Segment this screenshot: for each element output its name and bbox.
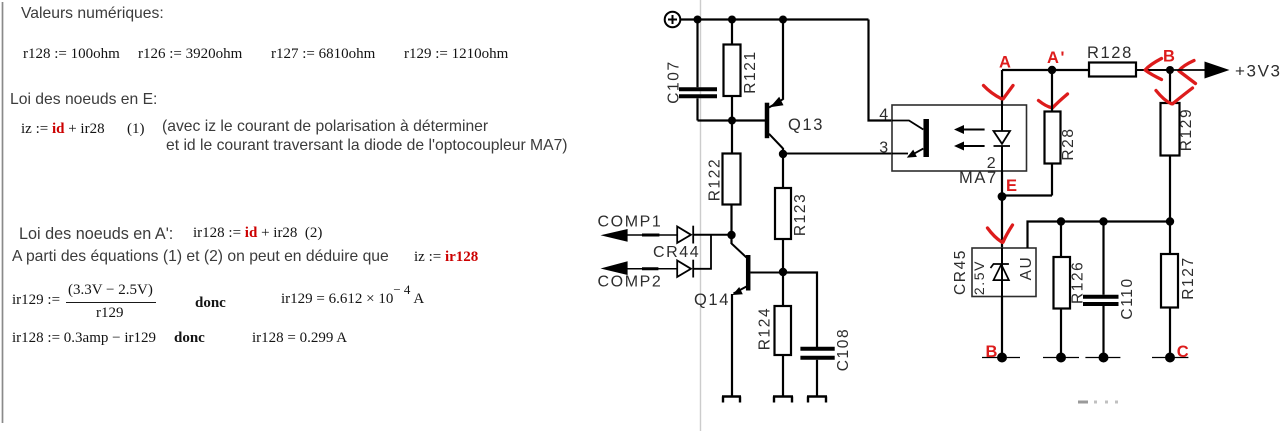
svg-text:R121: R121 xyxy=(742,50,759,93)
svg-text:R28: R28 xyxy=(1060,127,1077,160)
diode CR44a xyxy=(677,226,693,244)
+3V3 terminal xyxy=(1205,62,1230,79)
junction A' xyxy=(1048,66,1056,74)
column separator rule xyxy=(700,0,702,431)
label CR44 xyxy=(653,244,700,261)
input terminal COMP1 xyxy=(601,229,678,242)
label C107 xyxy=(666,60,683,103)
wire R128 to B xyxy=(1136,69,1170,71)
junction Q13 collector node xyxy=(779,150,787,158)
capacitor C107 xyxy=(679,20,717,121)
label R28 xyxy=(1060,127,1077,160)
svg-text:+3V3: +3V3 xyxy=(1235,62,1280,81)
svg-text:Q13: Q13 xyxy=(788,116,824,134)
label Q14 xyxy=(694,291,730,309)
label R128 xyxy=(1087,44,1133,62)
svg-text:3: 3 xyxy=(879,140,890,157)
junction base divider node xyxy=(728,117,736,125)
wire node A drop xyxy=(1001,70,1003,105)
label R123 xyxy=(792,193,809,236)
svg-text:R129: R129 xyxy=(1178,108,1195,151)
label R122 xyxy=(707,158,724,201)
transistor Q14 xyxy=(732,235,784,396)
label CR45 xyxy=(952,249,969,295)
pin 3 label xyxy=(879,140,890,157)
svg-text:C108: C108 xyxy=(835,328,852,371)
capacitor C108 xyxy=(800,349,834,396)
node label B xyxy=(1163,48,1177,66)
wire R28 to E xyxy=(1002,194,1052,196)
transistor Q13 xyxy=(767,20,784,155)
resistor R124 xyxy=(775,272,792,396)
svg-text:MA7: MA7 xyxy=(959,169,998,187)
resistor R122 xyxy=(723,121,741,236)
label R129 xyxy=(1178,108,1195,151)
wire Q14 base node to C108 xyxy=(783,273,817,348)
optocoupler MA7 box xyxy=(892,105,1027,171)
junction E xyxy=(998,192,1007,201)
shunt regulator CR45 box xyxy=(972,248,1036,297)
resistor R126 xyxy=(1054,222,1071,358)
wire B to +3V3 xyxy=(1170,69,1205,71)
ground Q14 emitter xyxy=(722,397,741,403)
junction R126 bottom xyxy=(1043,353,1079,363)
red current arrow at A' xyxy=(1039,94,1068,108)
red current arrow at R129 top xyxy=(1156,88,1193,104)
junction rail/Q13 emitter xyxy=(779,16,787,24)
resistor R129 xyxy=(1161,70,1180,222)
wire A to A' xyxy=(1002,69,1052,71)
erased note marks xyxy=(1078,401,1118,404)
node label A xyxy=(999,54,1013,72)
zener diode inside CR45 xyxy=(991,248,1009,297)
junction rail/C107 xyxy=(694,16,702,24)
junction rail/R121 xyxy=(728,16,736,24)
ground R124 xyxy=(773,397,793,403)
label +3V3 xyxy=(1235,62,1280,81)
node label A' xyxy=(1047,49,1066,67)
svg-text:R127: R127 xyxy=(1180,256,1197,299)
label R127 xyxy=(1180,256,1197,299)
resistor R123 xyxy=(775,154,791,272)
resistor R127 xyxy=(1161,222,1178,358)
red current arrow above CR45 xyxy=(988,225,1013,242)
svg-text:B: B xyxy=(1163,48,1177,66)
resistor R121 xyxy=(724,20,741,121)
label AU xyxy=(1018,256,1035,281)
svg-text:R123: R123 xyxy=(792,193,809,236)
page margin rule xyxy=(2,2,4,423)
power terminal xyxy=(665,12,681,28)
input terminal COMP2 xyxy=(601,261,678,275)
resistor R128 xyxy=(1089,63,1136,77)
label Q13 xyxy=(788,116,824,134)
wire CR44b riser xyxy=(693,235,711,269)
diode CR44b xyxy=(677,260,693,278)
svg-text:R122: R122 xyxy=(707,158,724,201)
svg-text:A: A xyxy=(999,54,1013,72)
label R121 xyxy=(742,50,759,93)
opto LED diode xyxy=(994,105,1011,171)
junction B xyxy=(1166,66,1174,74)
svg-text:COMP2: COMP2 xyxy=(598,273,663,290)
junction R126 top xyxy=(1057,217,1065,225)
wire CR44a to junction xyxy=(693,234,731,236)
label C108 xyxy=(835,328,852,371)
wire E to CR45 xyxy=(1001,171,1003,248)
junction C110 bottom xyxy=(1085,353,1120,363)
ground C108 xyxy=(807,397,827,403)
junction C110 top xyxy=(1099,217,1107,225)
svg-text:Q14: Q14 xyxy=(694,291,730,309)
svg-text:CR45: CR45 xyxy=(952,249,969,295)
resistor R28 xyxy=(1045,70,1061,196)
node label E xyxy=(1006,177,1019,195)
node label B bottom xyxy=(986,343,1000,361)
node label C bottom xyxy=(1177,343,1191,361)
pin 4 label xyxy=(879,107,890,124)
label COMP2 xyxy=(598,273,663,290)
wire pin 3 xyxy=(783,153,892,155)
svg-text:C107: C107 xyxy=(666,60,683,103)
opto light arrows xyxy=(954,125,985,151)
opto phototransistor xyxy=(892,119,926,158)
label C110 xyxy=(1119,277,1136,319)
svg-text:R124: R124 xyxy=(757,307,774,350)
svg-text:C: C xyxy=(1177,343,1191,361)
label R124 xyxy=(757,307,774,350)
svg-text:E: E xyxy=(1006,177,1019,195)
svg-text:R128: R128 xyxy=(1087,44,1133,62)
capacitor C110 xyxy=(1083,222,1119,358)
wire top supply rail xyxy=(680,18,868,20)
svg-text:COMP1: COMP1 xyxy=(598,214,663,231)
svg-text:A': A' xyxy=(1047,49,1066,67)
svg-text:B: B xyxy=(986,343,1000,361)
wire rail to opto pin 4 xyxy=(869,20,893,121)
junction CR44 / Q14 collector node xyxy=(727,231,735,239)
junction Q14 base node xyxy=(779,268,787,276)
label COMP1 xyxy=(598,214,663,231)
wire CR45 tap to lower rail xyxy=(1028,222,1171,249)
pin 2 label xyxy=(987,155,998,172)
label R126 xyxy=(1070,261,1087,304)
wire C107 to Q13 base xyxy=(698,119,766,121)
wire A' to R128 xyxy=(1052,69,1089,71)
label MA7 xyxy=(959,169,998,187)
svg-text:C110: C110 xyxy=(1119,277,1136,319)
svg-text:CR44: CR44 xyxy=(653,244,700,261)
red current arrow right of B xyxy=(1179,61,1196,84)
wire CR45 to node B bottom xyxy=(1001,297,1003,358)
red current arrow at A xyxy=(984,86,1014,99)
svg-text:4: 4 xyxy=(879,107,890,124)
svg-text:AU: AU xyxy=(1018,256,1035,281)
junction R127 top xyxy=(1166,217,1174,225)
svg-text:2.5V: 2.5V xyxy=(971,260,987,295)
junction node B bottom xyxy=(982,353,1020,363)
junction node C bottom xyxy=(1152,353,1188,363)
red current arrow left of B xyxy=(1145,59,1161,80)
label 2.5V xyxy=(971,260,987,295)
